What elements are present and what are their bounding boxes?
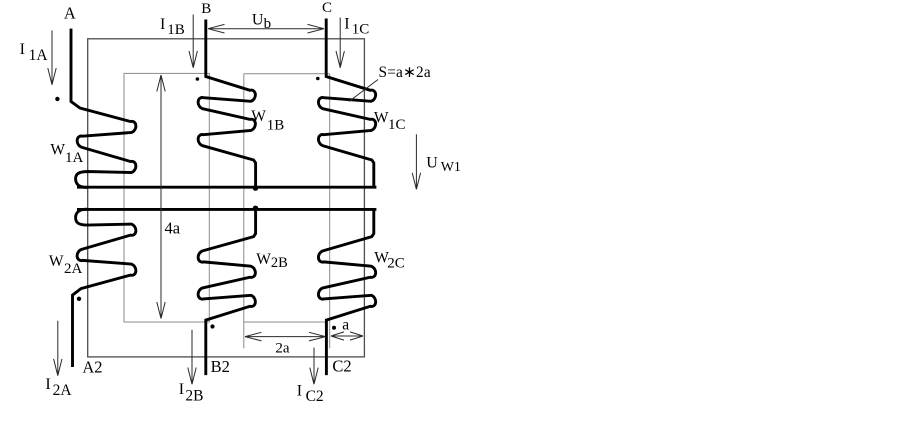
svg-text:1A: 1A bbox=[65, 150, 84, 166]
svg-text:S=a∗2a: S=a∗2a bbox=[379, 64, 431, 81]
svg-text:W: W bbox=[374, 109, 389, 126]
current arrow I1B bbox=[189, 15, 197, 68]
svg-text:I: I bbox=[179, 381, 184, 398]
dimension 4a vertical double arrow bbox=[157, 75, 165, 319]
svg-text:W: W bbox=[49, 253, 64, 270]
winding W2C with terminal C2 lead (mirror) bbox=[318, 209, 375, 375]
svg-text:I: I bbox=[45, 376, 50, 393]
upper bus wire (W1 star point) bbox=[77, 186, 376, 189]
dimension 2a horizontal double arrow bbox=[245, 332, 326, 341]
polarity dot phase B bbox=[196, 77, 200, 81]
winding W2B with terminal B2 lead (mirror) bbox=[198, 209, 255, 375]
svg-text:2B: 2B bbox=[185, 388, 203, 405]
current arrow I1A bbox=[48, 30, 56, 84]
svg-text:I: I bbox=[20, 41, 25, 58]
svg-text:U: U bbox=[426, 155, 438, 172]
svg-text:4a: 4a bbox=[165, 218, 181, 237]
voltage arrow UW1 bbox=[412, 134, 420, 189]
svg-text:I: I bbox=[160, 16, 165, 33]
polarity dot terminal A2 bbox=[77, 297, 81, 301]
dimension Ub horizontal double arrow bbox=[208, 24, 324, 33]
svg-text:C2: C2 bbox=[332, 357, 351, 376]
junction dot lower bus node bbox=[253, 206, 259, 212]
svg-text:C: C bbox=[322, 0, 332, 16]
svg-text:W: W bbox=[251, 108, 266, 125]
inner core window 1 bbox=[124, 73, 209, 322]
svg-text:2A: 2A bbox=[64, 261, 83, 277]
winding W1A with phase A lead bbox=[71, 29, 136, 188]
polarity dot phase C bbox=[316, 77, 320, 81]
svg-text:1C: 1C bbox=[388, 117, 406, 133]
current arrow I2B bbox=[188, 330, 196, 385]
inner core window 2 bottom edge bbox=[244, 321, 326, 323]
junction dot upper bus node bbox=[253, 185, 259, 191]
svg-text:2a: 2a bbox=[275, 341, 290, 357]
svg-text:U: U bbox=[252, 11, 264, 28]
current arrow I1C bbox=[336, 18, 344, 68]
inner core window 2 top edge bbox=[244, 73, 330, 75]
svg-text:W1: W1 bbox=[441, 160, 461, 175]
inner core window 2 right edge / a extension line bbox=[329, 74, 331, 349]
polarity dot terminal B2 bbox=[210, 324, 214, 328]
svg-text:C2: C2 bbox=[306, 388, 324, 405]
polarity dot phase A bbox=[55, 97, 59, 101]
svg-text:2C: 2C bbox=[387, 255, 405, 271]
svg-text:2A: 2A bbox=[53, 382, 73, 399]
svg-text:W: W bbox=[256, 251, 271, 268]
winding W1C with phase C lead bbox=[318, 19, 375, 188]
svg-text:W: W bbox=[50, 141, 65, 158]
inner core window 2 left edge / 2a extension line bbox=[243, 74, 245, 349]
svg-text:1C: 1C bbox=[352, 22, 370, 38]
callout line for S=a*2a bbox=[349, 80, 378, 102]
svg-text:1A: 1A bbox=[29, 47, 49, 64]
svg-text:A: A bbox=[64, 3, 76, 22]
outer core rectangle bbox=[88, 39, 365, 357]
svg-text:2B: 2B bbox=[271, 255, 288, 271]
current arrow IC2 bbox=[310, 348, 318, 385]
winding W1B with phase B lead bbox=[198, 20, 255, 188]
current arrow I2A bbox=[54, 321, 62, 376]
svg-text:b: b bbox=[264, 16, 272, 32]
svg-text:B: B bbox=[201, 1, 211, 17]
svg-text:A2: A2 bbox=[82, 358, 102, 377]
lower bus wire (W2 star point) bbox=[77, 208, 376, 211]
svg-text:1B: 1B bbox=[167, 22, 185, 38]
dimension a horizontal double arrow bbox=[331, 332, 363, 340]
winding W2A with terminal A2 lead (mirror) bbox=[73, 209, 136, 367]
svg-text:a: a bbox=[342, 317, 349, 334]
svg-text:B2: B2 bbox=[211, 357, 230, 376]
polarity dot terminal C2 bbox=[332, 326, 336, 330]
svg-text:I: I bbox=[344, 15, 349, 32]
svg-text:I: I bbox=[297, 383, 302, 400]
svg-text:1B: 1B bbox=[267, 118, 285, 134]
